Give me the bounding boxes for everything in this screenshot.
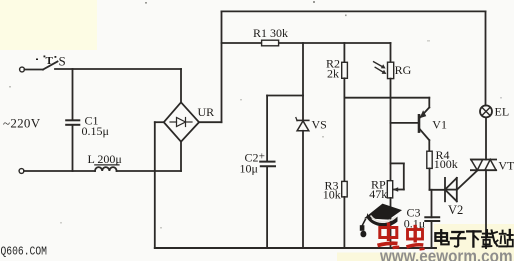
svg-text:R1 30k: R1 30k <box>253 26 288 40</box>
svg-text:47k: 47k <box>369 187 387 201</box>
svg-text:Q606.COM: Q606.COM <box>1 245 48 258</box>
svg-text:VS: VS <box>312 118 327 132</box>
svg-text:2k: 2k <box>327 67 339 81</box>
svg-text:0.15μ: 0.15μ <box>82 124 109 138</box>
svg-text:T: T <box>46 55 54 67</box>
svg-text:UR: UR <box>198 105 215 119</box>
svg-text:RG: RG <box>395 63 412 77</box>
svg-text:+: + <box>259 151 265 163</box>
svg-text:10k: 10k <box>323 188 341 202</box>
svg-text:VT: VT <box>498 159 514 173</box>
svg-text:~220V: ~220V <box>3 116 41 131</box>
svg-text:V2: V2 <box>448 203 463 217</box>
svg-text:S: S <box>59 54 66 69</box>
svg-text:10μ: 10μ <box>240 161 258 175</box>
svg-text:V1: V1 <box>432 118 447 132</box>
svg-text:www.eeworm.com: www.eeworm.com <box>379 246 512 261</box>
svg-text:EL: EL <box>495 105 510 119</box>
svg-text:L 200μ: L 200μ <box>88 152 122 166</box>
svg-text:100k: 100k <box>434 157 458 171</box>
